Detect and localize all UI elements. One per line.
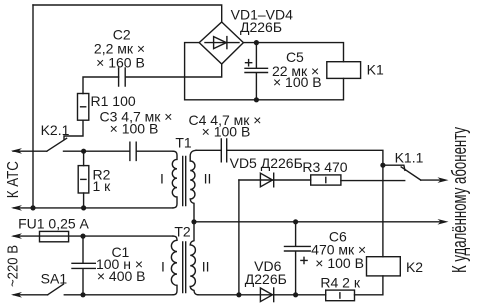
svg-text:× 160 В: × 160 В [96, 55, 145, 71]
svg-text:R4 2 к: R4 2 к [320, 275, 360, 291]
svg-text:I: I [160, 170, 164, 186]
svg-text:II: II [204, 170, 212, 186]
wire to remote arrow 1 [421, 179, 442, 181]
wire C2 left to R1 [83, 77, 119, 94]
wire T1 sec bottom line to remote arrow 2 [191, 219, 196, 224]
resistor R1 [78, 94, 89, 121]
wire R1 bottom to contact [64, 120, 83, 139]
svg-text:K1.1: K1.1 [395, 150, 424, 166]
diode VD6 [260, 288, 272, 302]
node R2 top [81, 149, 86, 154]
svg-text:K1: K1 [367, 62, 384, 78]
wire left vertical rail [32, 5, 34, 208]
plus sign C5 [246, 60, 252, 66]
svg-text:T1: T1 [175, 135, 192, 151]
wire bridge bottom vertex to C2 [125, 64, 222, 77]
svg-text:Д226Б: Д226Б [245, 271, 287, 287]
capacitor C3 [130, 142, 136, 160]
node C1 bottom [80, 292, 85, 297]
arrow to ATS line 1 [11, 148, 22, 154]
node vertical joins bottom line [236, 292, 241, 297]
svg-text:R1 100: R1 100 [91, 93, 136, 109]
diode bridge VD1-VD4 diamond [199, 22, 243, 64]
wire bridge right vertex to plus rail [243, 43, 343, 62]
capacitor C2 [119, 68, 126, 86]
capacitor C5 [245, 43, 268, 100]
capacitor C1 [72, 236, 95, 295]
svg-text:× 100 В: × 100 В [110, 121, 159, 137]
T2 core [183, 242, 186, 293]
wire line 1 left segment [13, 150, 47, 152]
node left rail joins line 2 [30, 205, 35, 210]
svg-text:× 100 В: × 100 В [273, 74, 322, 90]
svg-text:R3 470: R3 470 [302, 159, 347, 175]
svg-text:~220 В: ~220 В [5, 245, 22, 287]
switch K2.1 blade [47, 138, 67, 151]
wire top rail from left rail to bridge top [33, 5, 222, 22]
svg-text:× 400 В: × 400 В [97, 268, 146, 284]
node C5 bottom [254, 97, 259, 102]
svg-text:К АТС: К АТС [5, 161, 22, 198]
T2 primary winding [171, 236, 177, 295]
svg-text:I: I [161, 259, 165, 275]
wire line 1 right segment [64, 150, 130, 152]
wire bridge left vertex to minus rail [185, 43, 344, 100]
node C1 top [80, 234, 85, 239]
T1 secondary winding [190, 150, 196, 222]
relay coil K1 [327, 62, 361, 79]
relay coil K2 [367, 257, 401, 276]
switch K1.1 [380, 163, 385, 168]
K1.1 blade [401, 167, 421, 180]
svg-text:1 к: 1 к [93, 178, 112, 194]
T1 core [183, 157, 186, 206]
svg-text:II: II [202, 259, 210, 275]
svg-text:Д226Б: Д226Б [240, 19, 282, 35]
wire line 2 [14, 207, 173, 209]
wire R3 right open contact [341, 180, 405, 182]
wire C3 to T1 [136, 150, 173, 152]
svg-text:K2: K2 [406, 259, 423, 275]
svg-text:× 100 В: × 100 В [315, 255, 364, 271]
bridge inner diode [205, 42, 239, 44]
node R2 bottom [81, 205, 86, 210]
capacitor C4 [196, 139, 227, 162]
plus sign C6 [301, 257, 307, 263]
diode VD5 [239, 179, 311, 181]
T1 primary winding [172, 151, 177, 208]
svg-text:VD5 Д226Б: VD5 Д226Б [230, 155, 303, 171]
wire R4 to K2 [355, 276, 383, 295]
wire K1.1 down to K2 [382, 165, 384, 257]
bottom right line from T2 secondary [198, 294, 326, 296]
resistor R3 [311, 175, 341, 185]
resistor R4 [326, 290, 355, 301]
capacitor C6 [293, 219, 298, 224]
node C5 top [254, 40, 259, 45]
wire C4 to K1.1 [227, 150, 383, 165]
resistor R2 [83, 151, 85, 165]
wire VD5 anode down [238, 180, 240, 295]
svg-text:К удалённому абоненту: К удалённому абоненту [449, 127, 471, 273]
svg-text:× 100 В: × 100 В [202, 124, 251, 140]
arrow to ATS line 2 [11, 205, 22, 211]
T2 secondary winding [190, 222, 198, 295]
svg-text:FU1 0,25 А: FU1 0,25 А [18, 216, 89, 232]
svg-text:K2.1: K2.1 [41, 122, 70, 138]
